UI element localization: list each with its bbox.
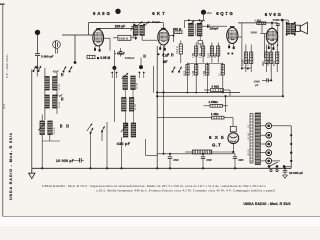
wire 6V6G plate up to output transformer bus: [271, 23, 273, 28]
wires osc column: [124, 90, 126, 98]
wire x271 grid leak down: [270, 46, 272, 80]
svg-text:1.5MΩ: 1.5MΩ: [208, 100, 218, 104]
page corner mark top-left: [0, 3, 5, 5]
svg-text:20 000: 20 000: [59, 101, 61, 108]
wire top bus right y22.9: [238, 22, 278, 24]
svg-text:160 220: 160 220: [248, 149, 250, 156]
resistor 2Mohm: [211, 89, 224, 92]
filter choke winding: [193, 150, 212, 154]
svg-text:110: 110: [248, 125, 250, 128]
power transformer primary winding: [255, 113, 260, 165]
switch contacts left group b: [63, 71, 65, 73]
svg-text:G.T: G.T: [212, 143, 221, 148]
wire y63.7 resistor row link: [188, 63, 223, 65]
T1 tuning arrows: [138, 21, 143, 25]
svg-text:5000: 5000: [184, 70, 186, 76]
wire top bus corner x89: [88, 23, 90, 35]
svg-text:6 Q 7 G: 6 Q 7 G: [216, 11, 233, 16]
capacitor 50pF below 6A8G: [119, 52, 123, 54]
page bottom rule: [3, 216, 320, 218]
svg-text:43pF: 43pF: [53, 69, 60, 73]
gang capacitor stator dot B: [139, 65, 143, 69]
svg-text:100pF: 100pF: [243, 59, 245, 66]
antenna coil T3 winding a: [45, 77, 49, 91]
svg-text:430 pF: 430 pF: [117, 142, 131, 146]
svg-text:• 50 pF: • 50 pF: [115, 52, 125, 56]
svg-text:[37]: [37]: [2, 104, 6, 109]
svg-text:0.5M: 0.5M: [193, 53, 195, 58]
wire top bus y22.6 to IF1: [89, 22, 161, 24]
wire mains vertical x291: [290, 126, 292, 169]
svg-text:1MΩ: 1MΩ: [215, 53, 217, 58]
antenna terminal dot: [35, 30, 40, 35]
wire 1Mohm down to grid: [261, 25, 263, 34]
junction dots under 6Q7G tube base: [227, 53, 229, 55]
svg-text:1000 Ω: 1000 Ω: [119, 36, 129, 40]
svg-text:UNDA RADIO - Mod. R 53/4: UNDA RADIO - Mod. R 53/4: [9, 132, 13, 200]
svg-text:1000 Ω: 1000 Ω: [177, 46, 179, 54]
resistor 1Mohm body: [257, 22, 266, 25]
svg-text:1000pF: 1000pF: [125, 56, 135, 60]
svg-text:5000: 5000: [251, 30, 258, 34]
capacitor 1000pF on y80 wire: [267, 78, 269, 82]
small resistor 0.05M body: [87, 55, 95, 58]
IF transformer T1 winding a: [134, 25, 139, 35]
svg-text:200pF: 200pF: [152, 20, 161, 24]
svg-text:2MΩ: 2MΩ: [263, 61, 265, 66]
tube V5 6X5GT: [228, 133, 239, 144]
electrolytic capacitor C3 8MF: [234, 154, 236, 157]
svg-text:6 X 5: 6 X 5: [209, 135, 225, 141]
wire x225 down to rectifier: [225, 96, 227, 112]
tube V4 6V6G: [266, 28, 277, 44]
mains plug terminals: [270, 170, 272, 172]
oscillator coil T5 winding a: [123, 76, 127, 90]
bullet dot after 6A8G: [115, 9, 120, 14]
svg-text:20 000: 20 000: [135, 103, 137, 110]
switch contacts under 6K7: [172, 71, 174, 73]
node dot 6V6G plate at bus: [271, 22, 273, 24]
oscillator padder coil T7 winding b: [131, 123, 135, 137]
T7 tuning arrow: [121, 124, 128, 132]
tube V3 6Q7G: [227, 28, 238, 44]
tube V2 6K7: [158, 29, 169, 45]
wire choke leads: [185, 151, 193, 153]
junction dots on buses: [156, 91, 158, 93]
resistor bank lower row: [187, 63, 189, 93]
antenna coil T4 winding a: [45, 95, 49, 108]
trimmer 43pF plates: [62, 73, 63, 76]
T2 core line: [194, 24, 196, 36]
capacitor 3000pF antenna series: [35, 54, 40, 56]
speaker cone: [300, 22, 307, 34]
svg-text:10 000 pF: 10 000 pF: [289, 171, 303, 175]
svg-text:0.1M: 0.1M: [193, 71, 195, 76]
svg-text:50 000: 50 000: [137, 82, 139, 89]
output transformer primary winding: [286, 23, 290, 34]
T2 tuning arrows: [189, 21, 194, 25]
svg-text:6 V 6 G: 6 V 6 G: [265, 12, 282, 17]
svg-text:200 Ω: 200 Ω: [173, 27, 182, 31]
power transformer secondary bar: [250, 114, 253, 164]
wires T8 to bus: [41, 115, 43, 122]
ground under T1: [135, 35, 137, 37]
gang B contacts: [139, 72, 141, 74]
voltage tap plugs: [260, 125, 265, 127]
ground mark mains capacitor: [283, 175, 288, 178]
svg-text:50pF: 50pF: [274, 60, 276, 66]
variable capacitor arrow mid: [87, 124, 92, 132]
T2 top frame wire: [185, 19, 205, 21]
wire long vertical x282 speaker return: [282, 20, 284, 96]
wire bus y92.5: [157, 92, 240, 94]
trimmer capacitor 200pF: [131, 27, 135, 29]
oscillator coil T8 winding a: [40, 121, 44, 135]
node dot x75: [74, 61, 77, 64]
svg-text:0.5M: 0.5M: [204, 71, 206, 76]
T5 tuning arrow: [122, 73, 129, 79]
IF transformer T1 winding b: [140, 25, 145, 35]
oscillator coil T8 winding b: [48, 121, 52, 135]
electrolytic capacitor C1 8MF: [169, 154, 171, 157]
wire T1 bottom to right: [141, 35, 143, 40]
resistor 1Mohm lower: [212, 116, 225, 119]
wire AVC vertical x75: [74, 35, 76, 63]
oscillator coil T6 winding a: [122, 98, 126, 112]
svg-text:1 MΩ: 1 MΩ: [211, 112, 219, 116]
wire 6A8G grid cap lead: [97, 27, 99, 30]
T2 terminal dots: [188, 19, 190, 21]
output transformer secondary winding: [291, 23, 295, 34]
speaker frame: [296, 25, 301, 31]
T8 tuning arrow: [38, 123, 45, 131]
svg-text:2000: 2000: [209, 52, 211, 58]
svg-text:UNDA RADIO - Mod. R 53/4: UNDA RADIO - Mod. R 53/4: [243, 202, 290, 206]
wire 6Q7G right to vertical: [238, 36, 242, 38]
svg-text:25 pF: 25 pF: [55, 93, 62, 97]
wire 6K7 screen to 200ohm: [169, 35, 174, 37]
resistor 1000 ohm box: [118, 35, 131, 40]
node dot output bus: [281, 19, 284, 22]
svg-text:100 000: 100 000: [54, 128, 56, 135]
wires coil column left: [44, 68, 46, 77]
page left edge rule: [2, 4, 4, 217]
wire tap bottom row to switch: [272, 160, 280, 162]
trimmer capacitor near antenna: [53, 41, 61, 49]
antenna lead wire: [37, 35, 39, 54]
wire vertical x163.5: [163, 46, 165, 154]
wire bus y153.8: [157, 153, 235, 155]
svg-text:N. 87 — Radio Schemi: N. 87 — Radio Schemi: [7, 54, 9, 78]
capacitor box below T2: [198, 41, 203, 45]
svg-text:200pF: 200pF: [210, 26, 219, 30]
node antenna junction dot: [36, 66, 39, 69]
resistor 1.5Mohm: [210, 104, 223, 107]
svg-text:50 000: 50 000: [59, 83, 61, 90]
wire padder link y155.3: [145, 154, 157, 156]
mains switch: [268, 165, 271, 168]
svg-text:0.25M: 0.25M: [248, 60, 250, 66]
svg-text:10 000 pF: 10 000 pF: [56, 159, 75, 163]
capacitor 0.25 marks: [172, 53, 173, 56]
bottom bus junction dots: [89, 167, 91, 169]
svg-text:150 Ω: 150 Ω: [268, 60, 270, 66]
wire vertical x153.5: [153, 66, 155, 93]
resistor 200 ohm: [175, 31, 182, 34]
oscillator padder coil T7 winding a: [123, 123, 127, 137]
wire y28.4 grid cap to trimmer: [98, 27, 133, 29]
junction dots under 6K7: [158, 53, 160, 55]
node dots mains: [290, 134, 292, 136]
electrolytic capacitor C2 8MF: [202, 154, 204, 157]
svg-text:8MF: 8MF: [206, 158, 212, 162]
svg-text:25pF: 25pF: [207, 12, 213, 15]
oscillator coil T6 winding b: [129, 98, 133, 112]
wire rectifier cathode to choke: [232, 144, 234, 152]
ground symbol bottom left: [31, 168, 33, 173]
wire grid input horizontal y35: [62, 34, 93, 36]
capacitor 2000 coupling: [276, 24, 280, 26]
resistor bank upper row: [195, 43, 197, 63]
wire long vertical x157: [156, 46, 158, 168]
wire T2 to 6Q7G grid with capacitor 200pF: [202, 25, 227, 27]
junction dots filter: [169, 153, 171, 155]
svg-text:200 pF: 200 pF: [115, 25, 125, 29]
gang capacitor stator dot A: [112, 66, 116, 70]
antenna coil T3 winding b: [53, 77, 57, 91]
IF transformer T2 winding b: [197, 23, 202, 36]
rectifier plate rect: [230, 126, 236, 131]
switch contacts left group a: [33, 70, 35, 72]
speaker terminal dots: [286, 22, 288, 24]
capacitor 10000pF tone: [80, 158, 82, 163]
wire gang A up: [113, 50, 115, 66]
svg-text:6 A 8 G: 6 A 8 G: [93, 11, 110, 16]
wire y20 into output transformer: [277, 19, 289, 21]
svg-text:0.1M: 0.1M: [200, 53, 202, 58]
svg-text:8MF: 8MF: [173, 158, 179, 162]
wire tap top to mains vertical: [272, 125, 292, 127]
IF transformer T2 winding a: [189, 23, 194, 36]
T1 terminal dots: [133, 24, 135, 26]
gang A contacts: [111, 72, 113, 74]
svg-text:⊕ 0.05 M: ⊕ 0.05 M: [97, 56, 111, 60]
wire y68 under 6Q7G bank: [242, 67, 251, 69]
tube V1 6A8G: [93, 30, 104, 46]
bullet dot before 6Q7G: [201, 10, 206, 15]
svg-text:8MF: 8MF: [238, 158, 244, 162]
resistor bank right of 6Q7G: [245, 45, 247, 73]
antenna coil T4 winding b: [53, 95, 57, 108]
wire trimmer down to resistor: [132, 28, 134, 37]
svg-text:6 K 7: 6 K 7: [152, 11, 165, 16]
svg-text:pF: pF: [255, 83, 259, 87]
wire left bus x31.8: [31, 70, 33, 169]
capacitor 10000pF mains: [284, 168, 286, 170]
svg-text:2 MΩ: 2 MΩ: [211, 85, 219, 89]
trimmer 25pF plates: [62, 97, 63, 100]
svg-text:3 000 pF: 3 000 pF: [41, 55, 53, 59]
wire bottom bus y168: [32, 167, 291, 169]
switch contacts mid group: [90, 132, 92, 134]
junction dots under 6Q7G: [241, 68, 243, 70]
wire from AVC dot down to T2: [203, 15, 205, 20]
svg-text:125 140: 125 140: [248, 133, 250, 140]
resistor 1000 ohm cathode 6K7 vertical: [179, 44, 182, 54]
oscillator coil T5 winding b: [131, 76, 135, 90]
wire bus y96.2 long: [157, 95, 283, 97]
wire verticals to bottom bus: [90, 134, 92, 168]
wire 6A8G right side: [104, 37, 111, 39]
capacitor 1000pF marks: [144, 55, 145, 58]
trimmer pair left of padder: [60, 124, 61, 127]
wire gang B up: [140, 58, 142, 66]
wire antenna node to coils: [36, 68, 38, 77]
